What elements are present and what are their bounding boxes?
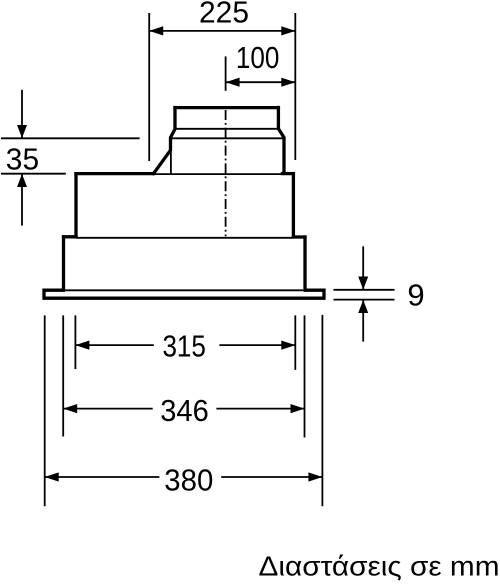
collar right edge (278, 106, 284, 175)
dimension line 225 (149, 26, 295, 35)
upper box right edge (292, 172, 295, 238)
upper box top edge thin (153, 173, 286, 175)
svg-text:100: 100 (236, 40, 280, 75)
collar left edge (171, 106, 176, 151)
middle box top edge thin (76, 237, 293, 239)
arrow upper of dim 35 (17, 90, 27, 138)
extension line left of dim 315 (74, 315, 76, 369)
collar left flare diagonal (153, 150, 171, 175)
middle box step right (292, 235, 307, 238)
extension line upper of dim 9 (334, 289, 395, 291)
extension line left of dim 225 (148, 13, 150, 161)
arrow upper of dim 9 (358, 246, 368, 289)
bottom flange plate (42, 289, 325, 300)
arrow lower of dim 35 (17, 174, 27, 226)
collar top edge (173, 106, 280, 109)
dimension line 346 (63, 404, 304, 413)
middle box right edge (303, 235, 306, 290)
svg-text:35: 35 (6, 142, 39, 177)
svg-text:346: 346 (160, 393, 209, 428)
svg-text:225: 225 (199, 0, 249, 30)
extension line left of dim 346 (62, 315, 64, 436)
svg-text:9: 9 (407, 278, 424, 313)
extension line right of dim 380 (321, 315, 323, 506)
middle box step left (62, 235, 78, 238)
extension line right of dim 315 (294, 315, 296, 370)
svg-text:315: 315 (162, 329, 206, 364)
extension line lower of dim 35 (1, 173, 66, 175)
extension line lower of dim 9 (334, 299, 395, 301)
middle box left edge (62, 235, 65, 290)
svg-text:Διαστάσεις σε mm: Διαστάσεις σε mm (259, 551, 500, 582)
upper box top edge thick left (74, 172, 153, 175)
extension line right of dim 346 (304, 315, 306, 437)
body bottom edge on flange (64, 289, 306, 291)
upper box top edge thick right (281, 172, 295, 175)
collar inner left edge (170, 150, 172, 175)
svg-text:380: 380 (164, 462, 213, 497)
collar joint line lower (171, 137, 285, 139)
dimension line 100 (226, 78, 296, 87)
dimension line 315 (75, 341, 295, 350)
collar joint line upper (175, 128, 278, 130)
arrow lower of dim 9 (358, 300, 368, 342)
upper box left edge (74, 172, 77, 238)
extension line upper of dim 35 (1, 137, 140, 139)
centerline (225, 110, 227, 236)
dimension line 380 (45, 472, 323, 481)
extension line right of dim 225/100 (294, 13, 296, 160)
extension line left of dim 100 (225, 56, 227, 90)
extension line left of dim 380 (44, 315, 46, 506)
